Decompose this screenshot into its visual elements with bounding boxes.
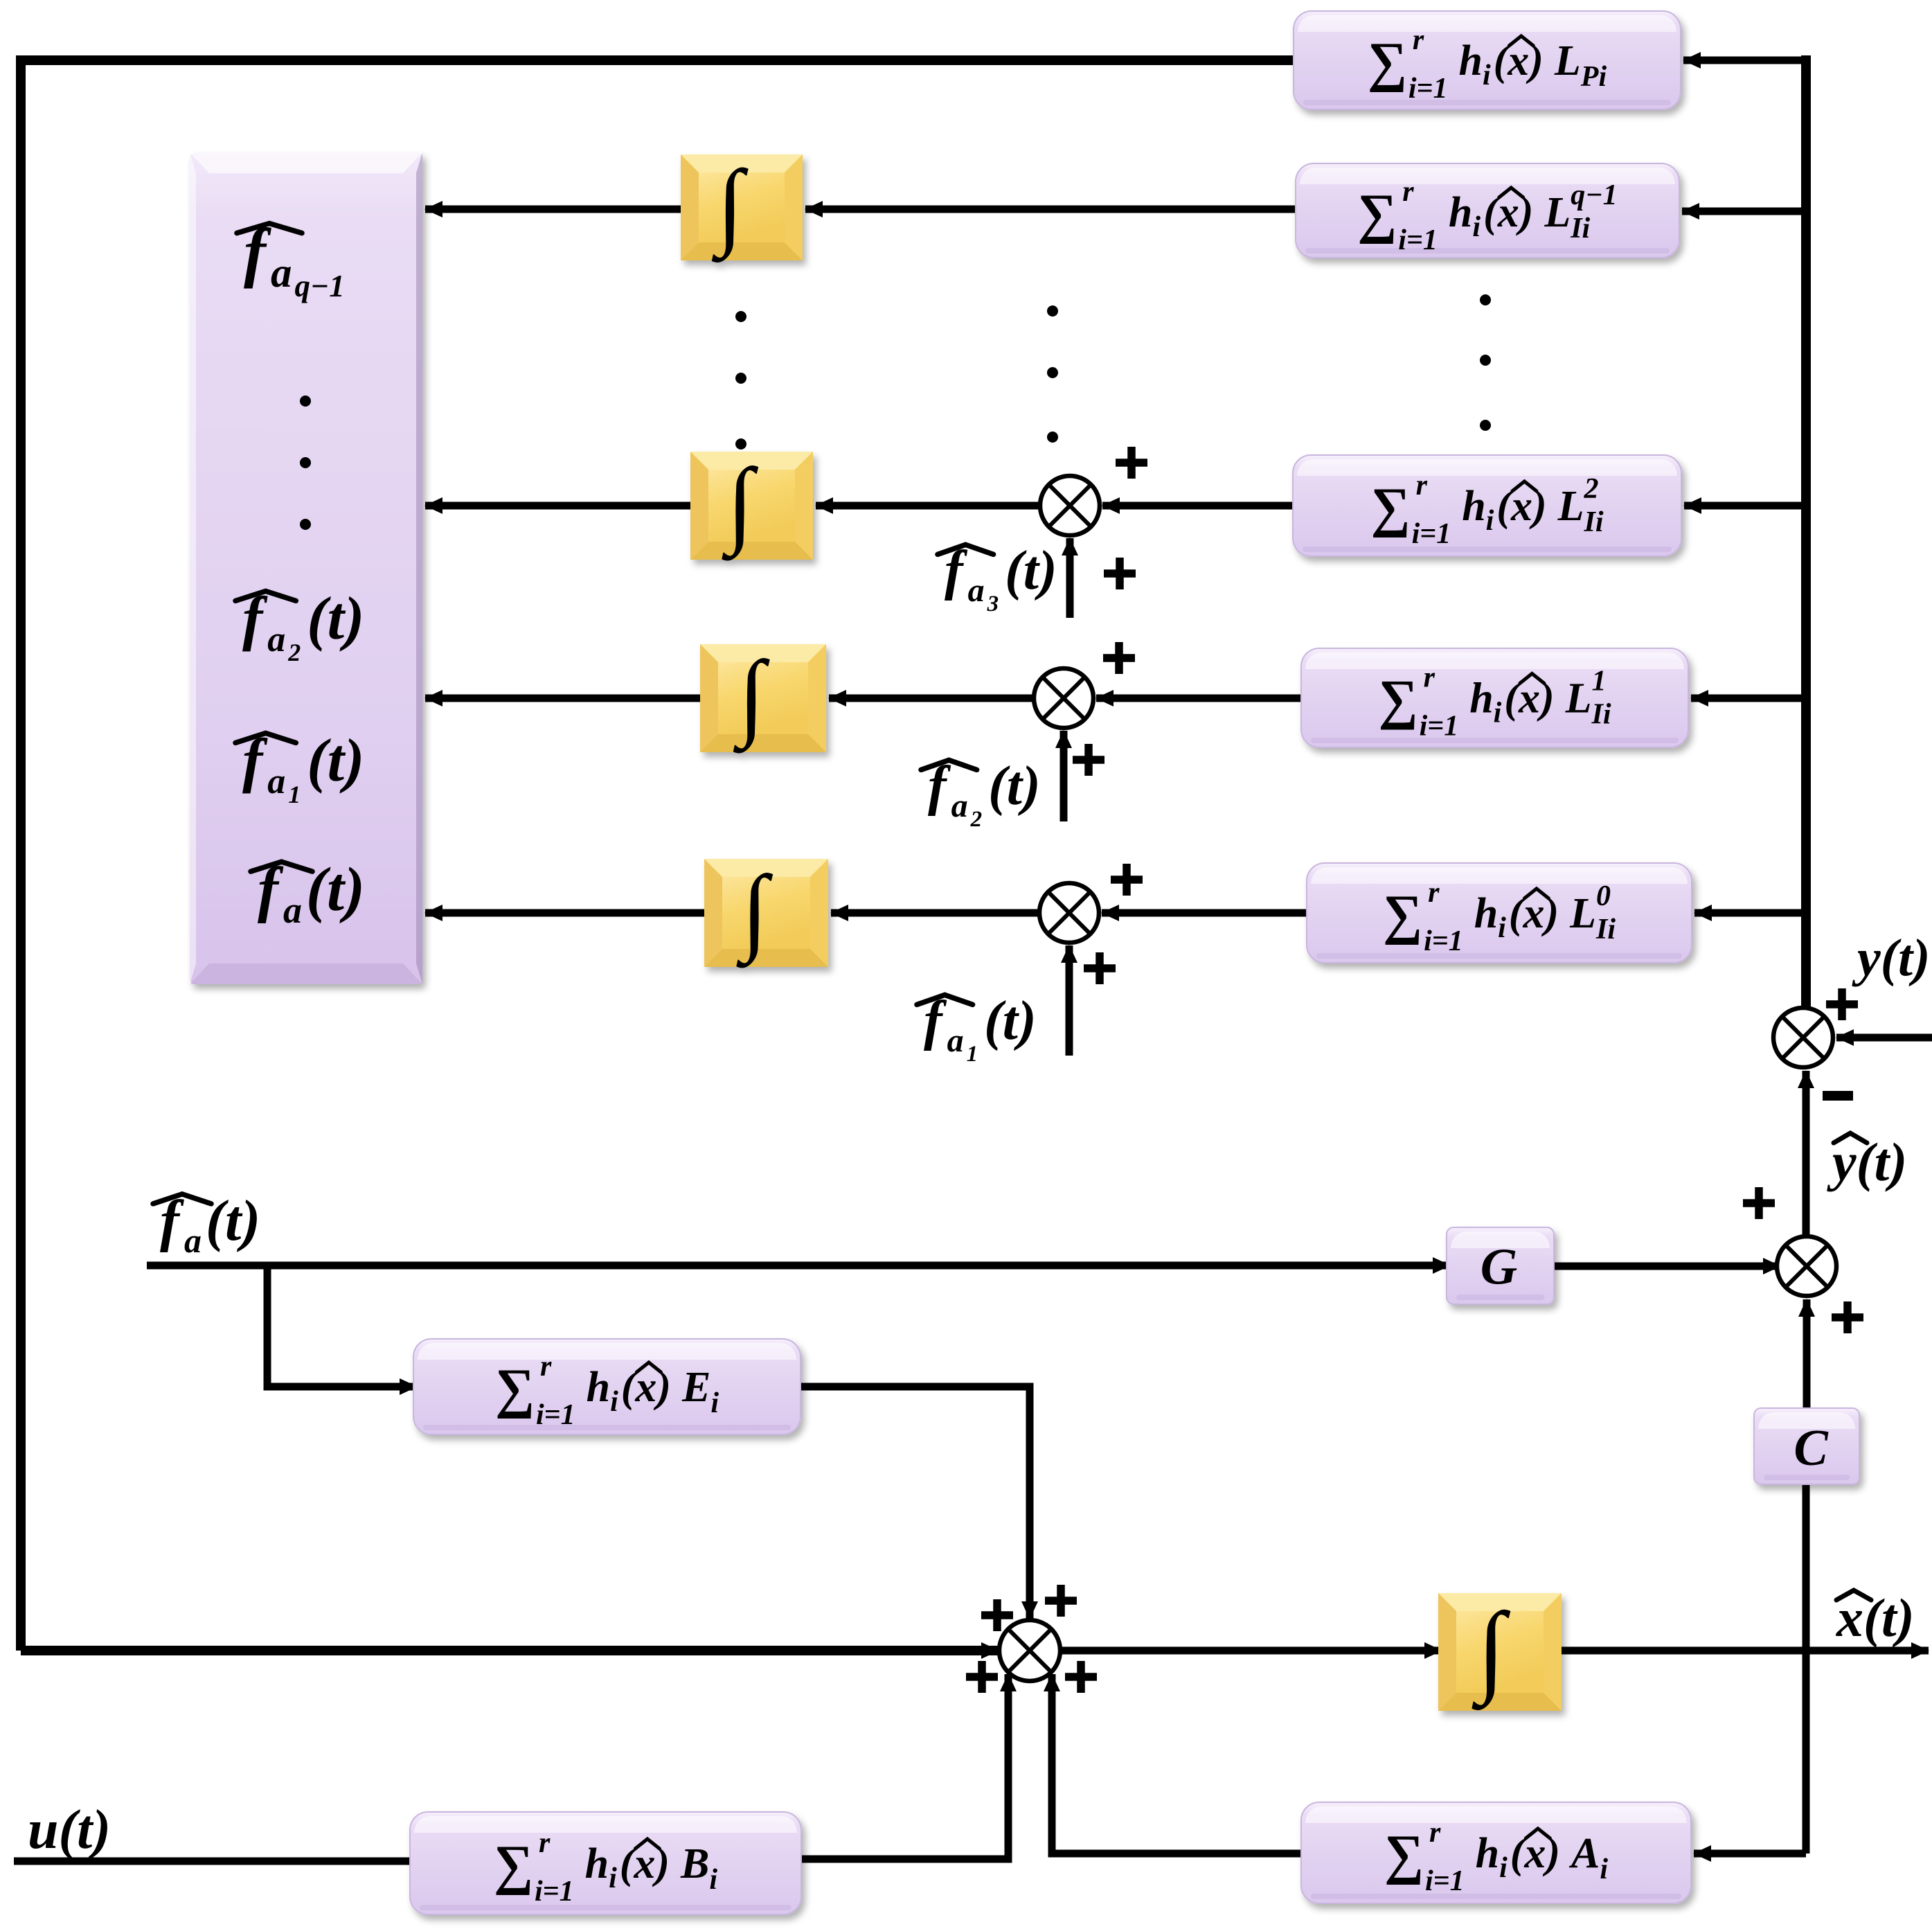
ellipsis dots gain column: [1480, 294, 1491, 305]
wire: E output over to summing junction SB: [800, 1387, 1030, 1619]
wire: y(t) measurement input: [1836, 1034, 1932, 1042]
svg-text:C: C: [1794, 1420, 1829, 1477]
wire: integrator 2 output to estimate stack: [425, 502, 690, 510]
plus sign SB top-left: [981, 1599, 1013, 1631]
gain block sum h_i L_Ii^0: [1307, 863, 1692, 963]
wire: f_a(t) input to G block: [147, 1262, 1450, 1270]
plus sign at S5 bottom input: [1084, 952, 1116, 984]
summing junction S3: [1040, 476, 1100, 535]
wire: f_a1 input rising into S5: [1066, 945, 1073, 1056]
wire: integrator 4 output to estimate stack: [425, 909, 704, 917]
gain block G: [1447, 1227, 1554, 1304]
wire: x-hat feedback into A block: [1694, 1850, 1806, 1858]
summing junction SY (output error): [1773, 1008, 1833, 1067]
plus sign SB bottom-right: [1065, 1661, 1097, 1693]
summing junction S4: [1034, 668, 1093, 728]
wire: S3 output to integrator 2: [816, 502, 1040, 510]
fault estimate stack box: [190, 152, 422, 984]
wire: SB output to integrator 5: [1058, 1647, 1442, 1655]
wire: branch into L_Ii_q-1 block: [1682, 208, 1806, 215]
plus sign at SG from G: [1743, 1187, 1775, 1219]
wire: branch into L_Ii_1 block: [1691, 695, 1806, 702]
integrator 5: [1438, 1592, 1562, 1711]
svg-text:fa(t): fa(t): [160, 1189, 260, 1260]
summing junction SG (y-hat): [1777, 1236, 1836, 1296]
gain block C: [1754, 1408, 1859, 1484]
summing junction S5: [1039, 883, 1099, 943]
plus sign at S3 bottom input: [1104, 558, 1136, 589]
plus sign at S4 right input: [1103, 642, 1135, 674]
wire: G output into SG: [1554, 1263, 1780, 1270]
wire: u(t) input into B block: [14, 1858, 414, 1865]
wire: integrator 1 output to estimate stack: [425, 206, 681, 213]
gain block sum h_i E_i: [413, 1339, 800, 1434]
integrator 1: [681, 151, 803, 263]
gain block sum h_i L_Ii^q-1: [1296, 163, 1679, 258]
integrator 3: [700, 641, 826, 754]
plus sign at S3 right input: [1116, 447, 1147, 479]
plus sign SB top-right: [1045, 1585, 1077, 1617]
wire: f_a3 input rising into S3: [1066, 538, 1074, 618]
plus sign SB bottom-left: [966, 1661, 998, 1693]
gain block sum h_i L_Ii^2: [1293, 455, 1681, 556]
gain block sum h_i B_i: [410, 1812, 801, 1914]
wire: S5 output to integrator 4: [831, 909, 1039, 917]
svg-text:G: G: [1481, 1239, 1517, 1296]
svg-text:u(t): u(t): [28, 1799, 111, 1860]
wire: L_Ii_0 output to summing junction S5: [1102, 909, 1307, 917]
plus sign at S4 bottom input: [1073, 744, 1104, 776]
wire: A output to riser: [1052, 1674, 1301, 1854]
gain block sum h_i L_Ii^1: [1301, 648, 1688, 747]
wire: x-hat output to right edge: [1562, 1647, 1929, 1655]
wire: left border feedback vertical: [16, 55, 26, 1651]
gain block sum h_i L_Pi: [1294, 11, 1681, 109]
wire: innovation feedback vertical on right: [1801, 55, 1811, 1008]
gain block sum h_i A_i: [1301, 1802, 1691, 1903]
wire: y-hat rising into SY: [1803, 1071, 1810, 1236]
plus sign at SG from C: [1832, 1301, 1863, 1333]
plus sign at S5 right input: [1111, 864, 1143, 896]
wire: branch into L_Pi block: [1683, 57, 1806, 64]
ellipsis dots summing column: [1047, 305, 1058, 317]
svg-text:x(t): x(t): [1836, 1588, 1915, 1648]
wire: branch into L_Ii_2 block: [1684, 502, 1806, 510]
summing junction SB (state derivative): [999, 1620, 1060, 1681]
wire: branch into L_Ii_0 block: [1694, 909, 1806, 917]
wire: C output rising into SG: [1803, 1299, 1811, 1408]
wire: bottom feedback into summing junction SB: [21, 1646, 999, 1655]
wire: L_Ii_1 output to summing junction S4: [1096, 695, 1301, 702]
ellipsis dots in estimate stack: [300, 395, 311, 407]
wire: feedback from L_Pi output along top edge: [21, 55, 1296, 65]
wire: x-hat feedback vertical through C: [1803, 1482, 1810, 1854]
wire: L_Ii_2 output to summing junction S3: [1102, 502, 1293, 510]
wire: B output to riser into SB: [801, 1674, 1008, 1859]
integrator 4: [704, 856, 828, 968]
svg-text:y(t): y(t): [1852, 929, 1930, 987]
wire: f_a2 input rising into S4: [1060, 731, 1068, 821]
minus sign at SY y-hat input: [1823, 1091, 1853, 1101]
wire: integrator 3 output to estimate stack: [425, 695, 700, 702]
ellipsis dots integrator column: [735, 311, 746, 322]
wire: S4 output to integrator 3: [829, 695, 1034, 702]
wire: branch of f_a(t) down to E block: [267, 1265, 417, 1387]
plus sign at SY y(t) input: [1826, 988, 1858, 1020]
wire: L_Ii_q-1 output to integrator 1: [805, 206, 1296, 213]
integrator 2: [690, 449, 813, 561]
